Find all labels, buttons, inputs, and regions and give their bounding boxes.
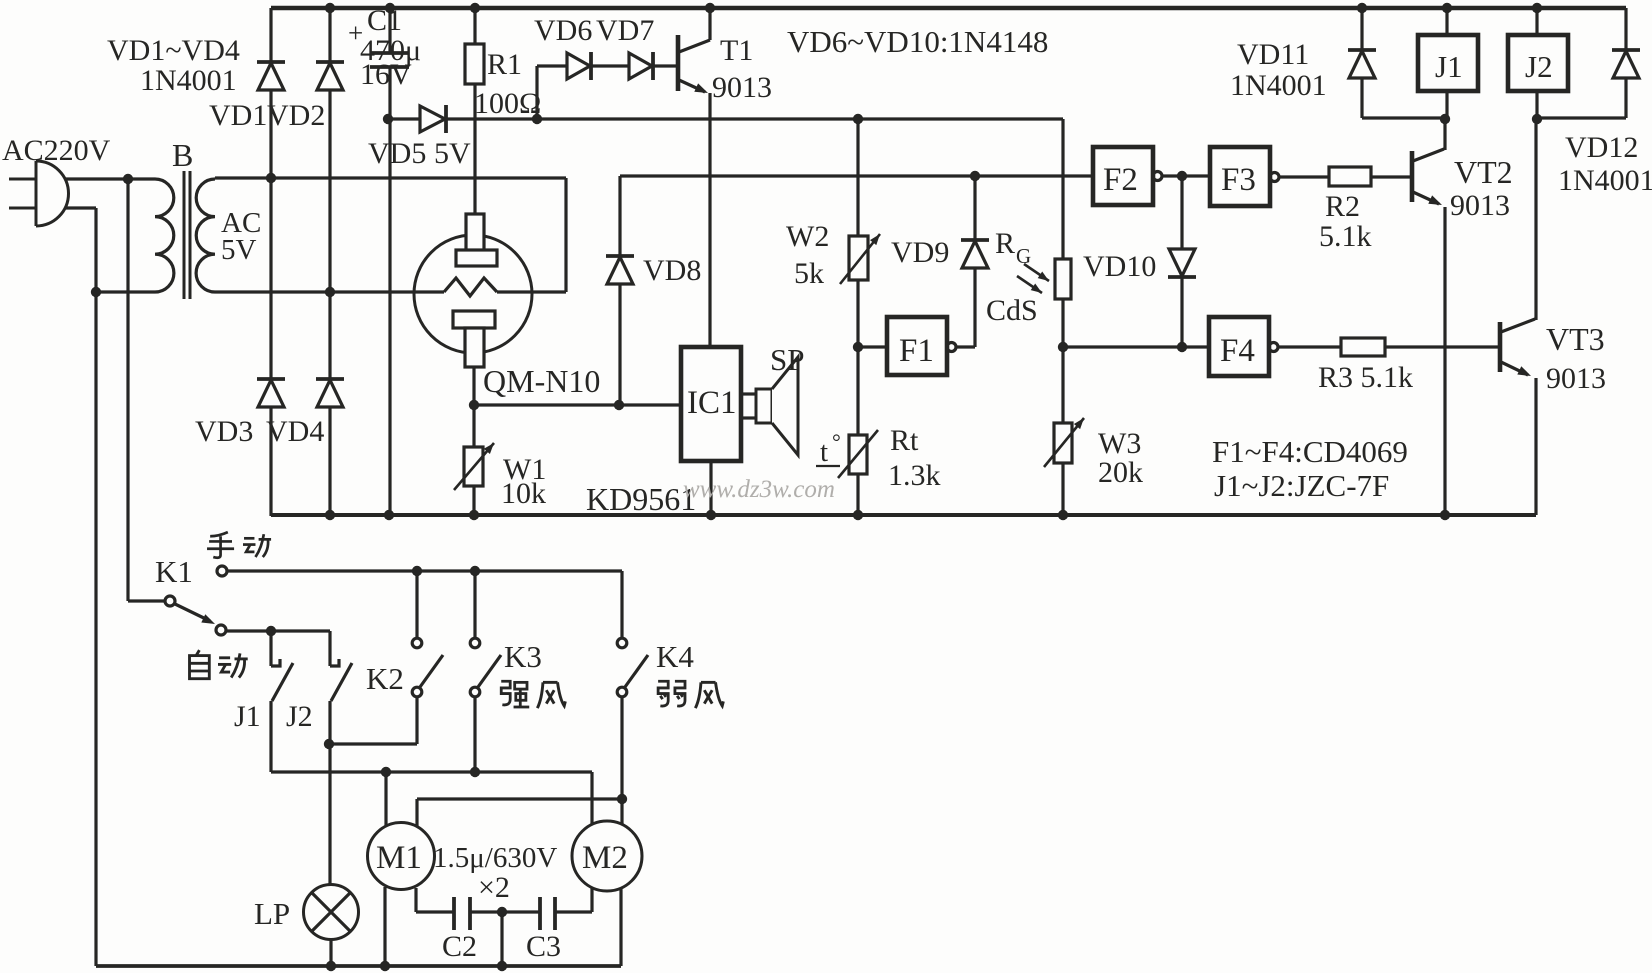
svg-text:VD1: VD1 xyxy=(209,99,267,132)
svg-text:J2: J2 xyxy=(1525,49,1553,84)
svg-text:AC220V: AC220V xyxy=(2,134,111,167)
svg-text:1N4001: 1N4001 xyxy=(140,64,237,97)
svg-text:CdS: CdS xyxy=(986,294,1038,327)
svg-text:10k: 10k xyxy=(501,477,546,510)
svg-text:VD3: VD3 xyxy=(195,415,253,448)
svg-text:5V: 5V xyxy=(434,137,471,170)
svg-text:5k: 5k xyxy=(794,257,824,290)
svg-text:C1: C1 xyxy=(367,4,402,37)
svg-text:QM-N10: QM-N10 xyxy=(483,363,600,399)
svg-text:VD11: VD11 xyxy=(1237,38,1309,71)
svg-text:www.dz3w.com: www.dz3w.com xyxy=(683,476,835,503)
svg-text:R2: R2 xyxy=(1325,190,1360,223)
svg-text:VD6: VD6 xyxy=(534,14,592,47)
svg-text:×2: ×2 xyxy=(478,871,510,904)
svg-text:°: ° xyxy=(832,429,841,454)
svg-text:1N4001: 1N4001 xyxy=(1230,69,1327,102)
svg-text:R3 5.1k: R3 5.1k xyxy=(1318,361,1413,394)
svg-text:F2: F2 xyxy=(1103,162,1138,198)
svg-text:VD2: VD2 xyxy=(267,99,325,132)
svg-text:R: R xyxy=(995,227,1015,260)
svg-text:KD9561: KD9561 xyxy=(586,481,696,517)
svg-text:J1: J1 xyxy=(234,700,261,733)
svg-text:C2: C2 xyxy=(442,930,477,963)
svg-text:9013: 9013 xyxy=(1450,189,1510,222)
svg-text:VT2: VT2 xyxy=(1454,154,1513,190)
svg-text:VD12: VD12 xyxy=(1565,131,1638,164)
svg-text:100Ω: 100Ω xyxy=(474,87,541,120)
svg-text:16V: 16V xyxy=(360,58,412,91)
svg-text:VD5: VD5 xyxy=(368,137,426,170)
svg-text:VD8: VD8 xyxy=(643,254,701,287)
svg-text:G: G xyxy=(1016,244,1031,268)
svg-text:SP: SP xyxy=(770,342,804,377)
svg-text:Rt: Rt xyxy=(890,424,919,457)
svg-text:K1: K1 xyxy=(155,554,193,589)
svg-text:T1: T1 xyxy=(720,34,753,67)
svg-text:VD9: VD9 xyxy=(891,236,949,269)
svg-text:M2: M2 xyxy=(582,840,628,876)
svg-text:5.1k: 5.1k xyxy=(1319,220,1372,253)
svg-text:t: t xyxy=(820,436,828,468)
svg-text:VD1~VD4: VD1~VD4 xyxy=(107,34,240,67)
svg-text:F3: F3 xyxy=(1221,162,1256,198)
svg-text:B: B xyxy=(172,137,193,173)
svg-text:IC1: IC1 xyxy=(687,385,737,421)
svg-text:F4: F4 xyxy=(1220,333,1255,369)
svg-text:VD6~VD10:1N4148: VD6~VD10:1N4148 xyxy=(787,24,1048,59)
svg-text:K4: K4 xyxy=(656,639,694,674)
svg-text:9013: 9013 xyxy=(712,71,772,104)
svg-text:1.3k: 1.3k xyxy=(888,459,941,492)
svg-text:1N4001: 1N4001 xyxy=(1558,164,1652,197)
svg-text:K3: K3 xyxy=(504,639,542,674)
svg-text:M1: M1 xyxy=(376,840,422,876)
svg-text:VT3: VT3 xyxy=(1546,321,1605,357)
svg-text:K2: K2 xyxy=(366,661,404,696)
svg-text:VD7: VD7 xyxy=(596,14,654,47)
svg-text:R1: R1 xyxy=(487,48,522,81)
svg-text:J1: J1 xyxy=(1435,49,1463,84)
svg-text:VD4: VD4 xyxy=(266,415,324,448)
svg-text:20k: 20k xyxy=(1098,456,1143,489)
svg-text:1.5μ/630V: 1.5μ/630V xyxy=(433,842,557,874)
svg-text:5V: 5V xyxy=(221,234,257,266)
svg-text:9013: 9013 xyxy=(1546,362,1606,395)
svg-text:J1~J2:JZC-7F: J1~J2:JZC-7F xyxy=(1214,468,1389,503)
svg-text:J2: J2 xyxy=(286,700,313,733)
svg-text:W2: W2 xyxy=(786,220,829,253)
svg-text:F1~F4:CD4069: F1~F4:CD4069 xyxy=(1212,434,1408,469)
svg-text:VD10: VD10 xyxy=(1083,250,1156,283)
svg-text:C3: C3 xyxy=(526,930,561,963)
svg-text:F1: F1 xyxy=(899,333,934,369)
svg-text:LP: LP xyxy=(254,896,290,931)
